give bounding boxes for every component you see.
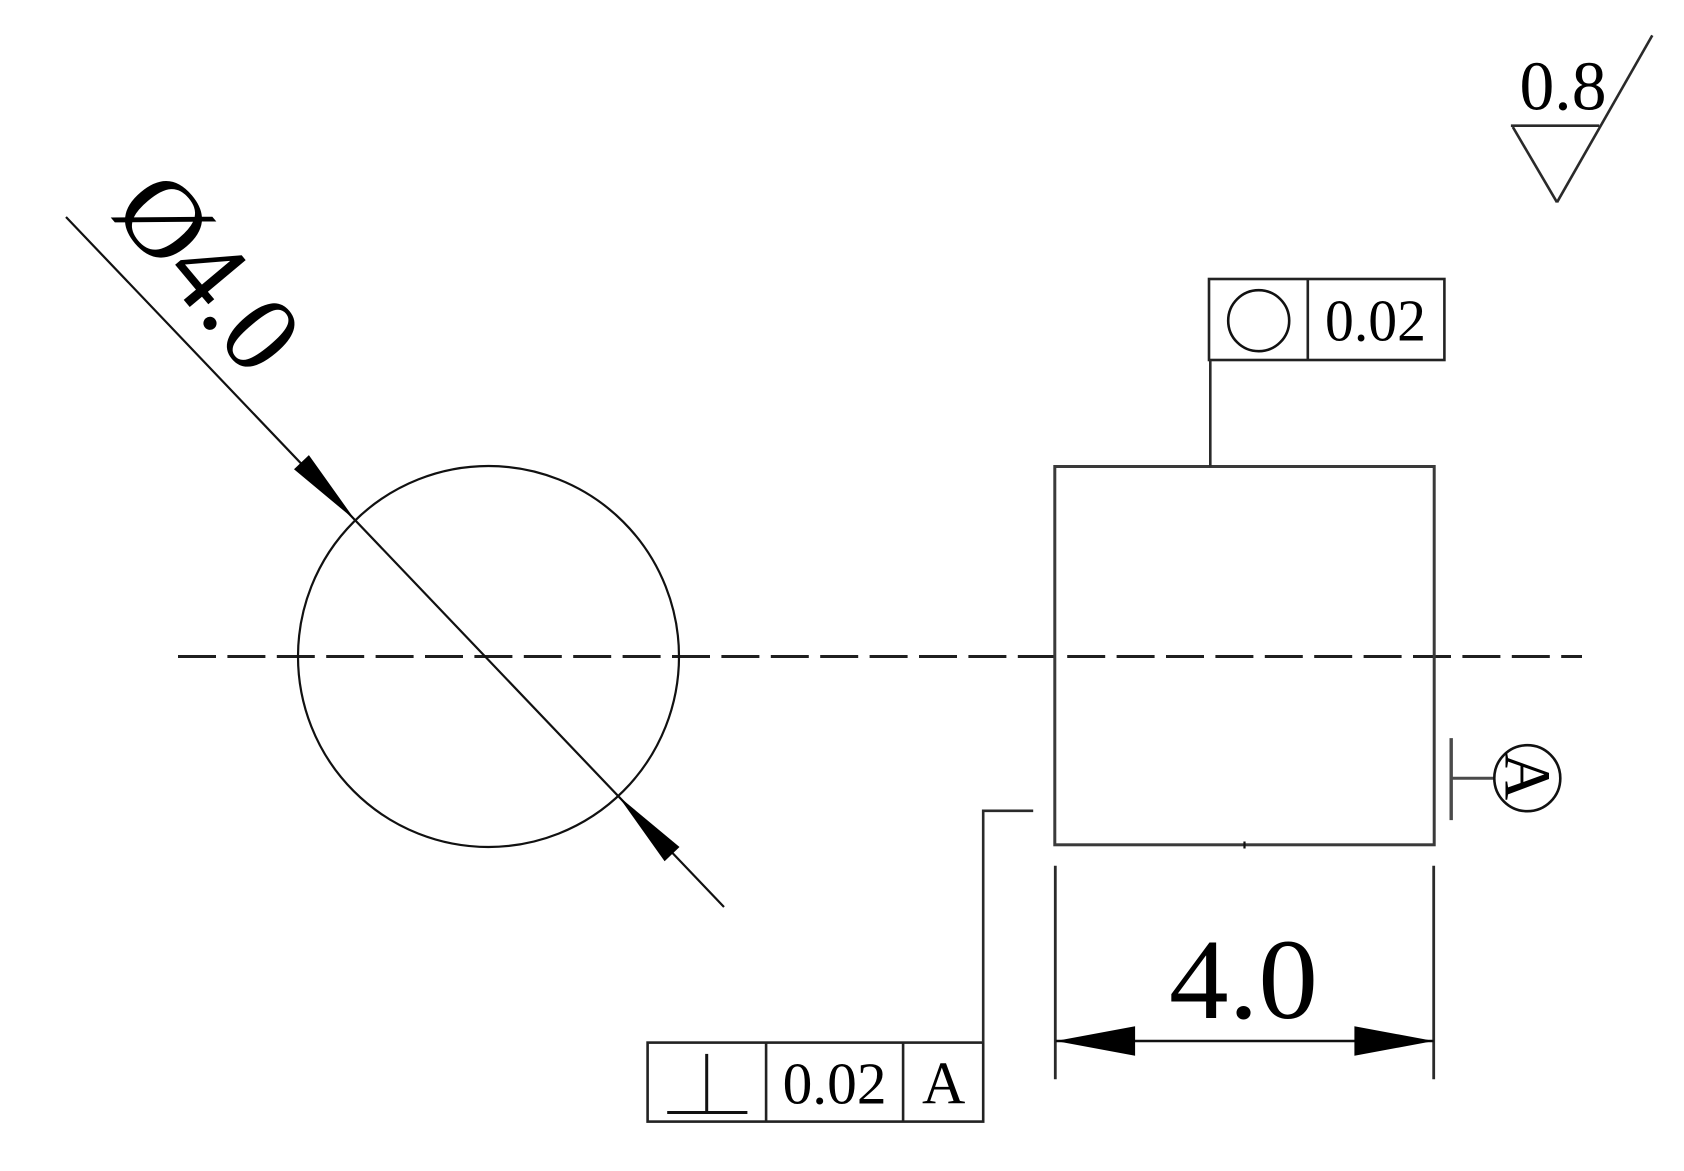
leader from perpendicularity frame to square bbox=[983, 811, 1033, 1043]
svg-text:4.0: 4.0 bbox=[1169, 916, 1318, 1043]
datum bar bbox=[1449, 738, 1452, 820]
surface finish symbol bbox=[1511, 35, 1652, 202]
square (side view of cylinder) bbox=[1055, 467, 1434, 845]
svg-text:A: A bbox=[922, 1050, 965, 1116]
circularity feature control frame bbox=[1209, 279, 1444, 360]
perpendicularity feature control frame bbox=[648, 1043, 984, 1122]
leader from circularity frame to square top bbox=[1209, 360, 1212, 467]
extension line left (4.0 dim) bbox=[1054, 866, 1057, 1080]
dimension arrowhead right bbox=[1354, 1026, 1433, 1056]
datum feature symbol A bbox=[1451, 738, 1563, 820]
dimension line 4.0 bbox=[1056, 1040, 1434, 1042]
datum connector bbox=[1451, 777, 1494, 780]
dimension arrowhead upper bbox=[294, 455, 355, 520]
perpendicularity symbol bbox=[667, 1054, 747, 1113]
svg-text:0.02: 0.02 bbox=[783, 1050, 887, 1116]
svg-text:A: A bbox=[1490, 753, 1563, 801]
center tick on bottom edge bbox=[1243, 842, 1245, 849]
diameter dimension line bbox=[66, 217, 724, 907]
svg-text:0.8: 0.8 bbox=[1520, 48, 1607, 125]
circularity symbol bbox=[1228, 290, 1289, 351]
svg-text:0.02: 0.02 bbox=[1325, 288, 1426, 354]
centerline (dashed axis) bbox=[178, 655, 1582, 658]
circle (end view of cylinder) bbox=[298, 466, 679, 847]
datum circle bbox=[1494, 745, 1560, 811]
dimension arrowhead lower bbox=[618, 796, 679, 861]
dimension arrowhead left bbox=[1056, 1026, 1135, 1056]
extension line right (4.0 dim) bbox=[1432, 866, 1435, 1080]
